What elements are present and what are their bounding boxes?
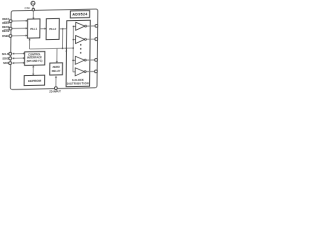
svg-text:PLL2: PLL2 bbox=[49, 27, 56, 31]
svg-text:AD9524: AD9524 bbox=[72, 12, 88, 16]
svg-text:DELAY: DELAY bbox=[52, 69, 61, 73]
svg-text:SDO: SDO bbox=[3, 61, 9, 65]
svg-text:PLL1: PLL1 bbox=[30, 27, 37, 31]
svg-text:(SPI AND I²C): (SPI AND I²C) bbox=[27, 59, 43, 63]
svg-text:ZERO: ZERO bbox=[53, 65, 60, 69]
svg-text:SDIO: SDIO bbox=[2, 56, 8, 60]
svg-text:ZD INPUT: ZD INPUT bbox=[49, 90, 61, 93]
svg-text:DISTRIBUTION: DISTRIBUTION bbox=[67, 81, 89, 85]
svg-text:EEPROM: EEPROM bbox=[28, 79, 42, 83]
svg-text:REFB: REFB bbox=[2, 25, 9, 29]
svg-text:OSC: OSC bbox=[25, 6, 31, 10]
svg-text:SCLK: SCLK bbox=[2, 52, 9, 56]
svg-text:REFA: REFA bbox=[2, 17, 9, 21]
svg-text:RSEL: RSEL bbox=[2, 34, 10, 38]
